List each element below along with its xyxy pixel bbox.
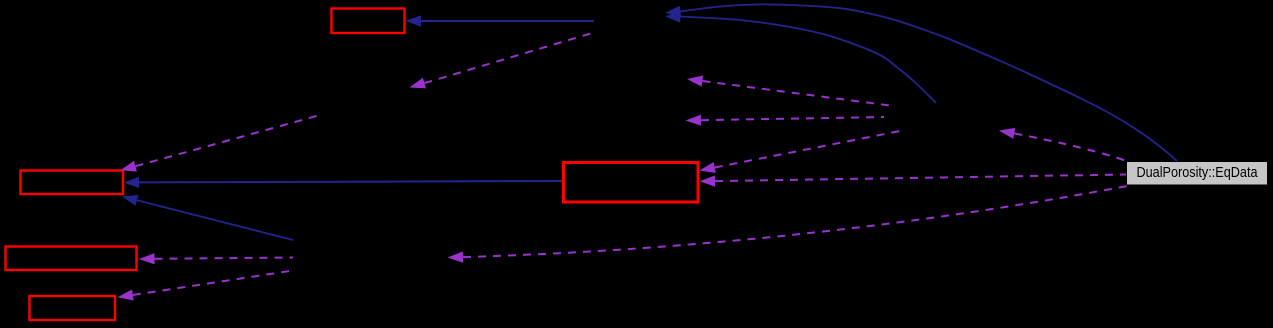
blue inheritance edge E2a: EqData -> N1 (upper curve) bbox=[665, 4, 1177, 161]
purple usage edge P8: EqData -> N6 (long curve) bbox=[448, 186, 1131, 263]
blue inheritance edge E3: B3 -> B2 bbox=[124, 177, 563, 188]
purple usage edge P10: N6 -> B5 bbox=[118, 271, 294, 301]
purple usage edge P9: N6 -> B4 bbox=[139, 253, 293, 264]
purple usage edge P6: EqData -> B3 (horizontal) bbox=[700, 175, 1127, 187]
node DualPorosity::EqData (gray) bbox=[1127, 162, 1268, 186]
purple usage edge P3: N4 -> N3a bbox=[687, 76, 890, 106]
class box B2 (left middle) bbox=[21, 171, 124, 195]
blue inheritance edge E2b: N4 -> N1 (lower curve) bbox=[665, 12, 936, 103]
purple usage edge P4: N4 -> N3b bbox=[686, 115, 885, 126]
purple usage edge P5: N4 -> B3 top corner bbox=[700, 131, 901, 173]
class box B5 (bottom) bbox=[30, 296, 116, 320]
purple usage edge P2: N5 -> B2 corner bbox=[121, 115, 321, 172]
purple usage edge P1: N1 -> N5 bbox=[410, 33, 595, 89]
svg-text:DualPorosity::EqData: DualPorosity::EqData bbox=[1137, 164, 1259, 181]
class box B4 (bottom left) bbox=[6, 247, 137, 271]
class box B3 (center, thick border) bbox=[564, 163, 699, 203]
blue inheritance edge E4: N6 -> B2 bbox=[122, 195, 293, 240]
purple usage edge P7: EqData -> N4 bbox=[999, 128, 1128, 162]
class box B1 (top) bbox=[332, 9, 405, 34]
blue inheritance edge E1: N1 -> B1 bbox=[406, 15, 595, 26]
